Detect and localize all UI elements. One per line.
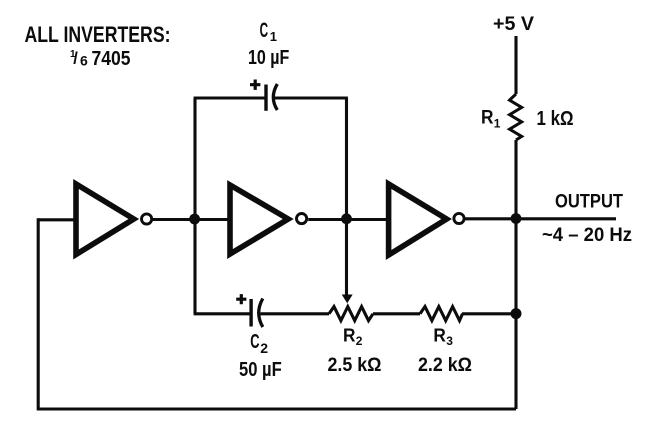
svg-text:3: 3 [446,334,453,348]
svg-text:ALL INVERTERS:: ALL INVERTERS: [25,22,171,47]
svg-text:10 µF: 10 µF [248,47,289,69]
svg-text:1: 1 [270,29,277,44]
svg-text:/: / [73,50,78,68]
svg-text:2: 2 [356,334,363,348]
svg-text:R: R [433,325,446,346]
svg-text:~4 – 20 Hz: ~4 – 20 Hz [542,225,632,246]
svg-text:C: C [260,19,269,42]
svg-text:2.2 kΩ: 2.2 kΩ [418,354,472,376]
svg-text:+5 V: +5 V [493,14,534,35]
svg-text:R: R [481,108,494,129]
svg-text:50 µF: 50 µF [239,359,282,381]
svg-text:R: R [343,325,356,346]
svg-text:OUTPUT: OUTPUT [555,191,623,213]
svg-text:2: 2 [260,340,268,356]
svg-text:6: 6 [80,53,88,69]
svg-text:2.5 kΩ: 2.5 kΩ [328,354,382,376]
svg-text:7405: 7405 [92,47,131,70]
svg-text:1 kΩ: 1 kΩ [537,108,574,130]
svg-text:C: C [250,331,259,353]
svg-text:1: 1 [494,117,501,131]
